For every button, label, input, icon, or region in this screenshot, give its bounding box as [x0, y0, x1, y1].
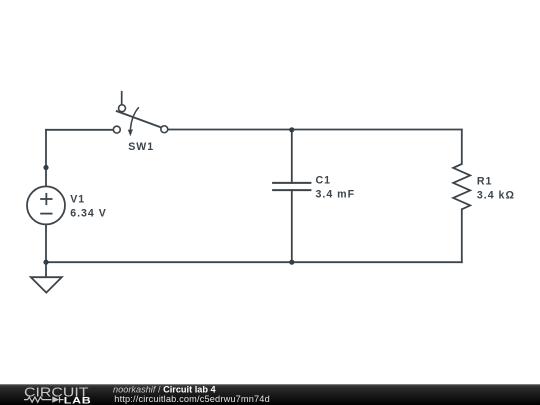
wire right rail top	[461, 130, 463, 164]
ground	[31, 262, 62, 292]
svg-text:V1: V1	[70, 194, 85, 206]
svg-text:LAB: LAB	[64, 396, 92, 405]
capacitor C1	[272, 183, 311, 190]
svg-text:3.4 mF: 3.4 mF	[316, 188, 356, 200]
switch SW1	[113, 91, 167, 133]
svg-text:R1: R1	[477, 175, 493, 187]
wire bottom rail	[46, 261, 462, 263]
CircuitLab logo diode	[52, 396, 59, 402]
wire top-left segment	[46, 129, 113, 131]
node A junction dot (above V1)	[43, 165, 48, 170]
label V1 value	[70, 194, 107, 220]
wire top-right segment	[168, 129, 462, 131]
wire left rail	[45, 130, 47, 187]
wire capacitor bottom branch	[291, 190, 293, 262]
label R1 value	[477, 175, 515, 201]
label C1 value	[316, 174, 356, 200]
svg-text:6.34 V: 6.34 V	[70, 208, 107, 220]
node junction dot (bottom of capacitor branch)	[289, 260, 294, 265]
svg-text:http://circuitlab.com/c5edrwu7: http://circuitlab.com/c5edrwu7mn74d	[114, 394, 270, 404]
CircuitLab logo schematic squiggle (resistor + diode)	[24, 397, 64, 403]
svg-text:SW1: SW1	[128, 141, 154, 153]
switch SW1 arrowhead	[128, 129, 133, 136]
wire capacitor top branch	[291, 130, 293, 183]
svg-text:C1: C1	[316, 174, 332, 186]
svg-text:3.4 kΩ: 3.4 kΩ	[477, 189, 515, 201]
voltage source V1	[27, 186, 65, 224]
node junction dot (top of capacitor branch)	[289, 127, 294, 132]
resistor R1	[453, 164, 470, 209]
wire right rail bottom	[461, 209, 463, 262]
node junction dot (ground node)	[43, 260, 48, 265]
wire V1 bottom to ground node	[45, 224, 47, 262]
